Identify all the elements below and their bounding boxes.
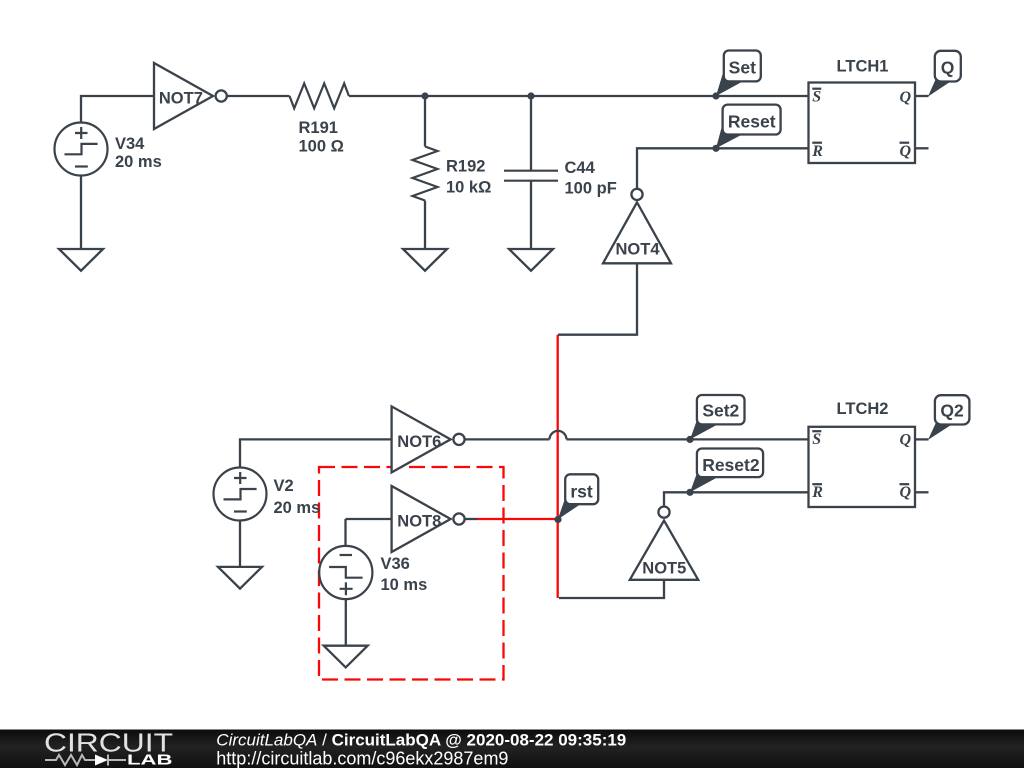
svg-text:CircuitLabQA / CircuitLabQA @: CircuitLabQA / CircuitLabQA @ 2020-08-22… [216,730,626,749]
svg-text:Q: Q [941,58,955,78]
svg-text:Q: Q [900,431,912,448]
svg-text:V34: V34 [115,135,145,153]
svg-text:R191: R191 [299,119,338,137]
svg-text:R192: R192 [446,158,485,176]
svg-text:V2: V2 [274,477,294,495]
svg-text:R: R [811,484,823,501]
svg-text:NOT5: NOT5 [642,560,686,578]
svg-text:10 kΩ: 10 kΩ [446,179,491,197]
svg-text:Q: Q [900,89,912,106]
svg-text:NOT8: NOT8 [397,513,441,531]
svg-text:Set: Set [729,58,756,78]
svg-text:Reset2: Reset2 [702,455,760,475]
svg-text:rst: rst [570,481,593,501]
svg-text:LTCH1: LTCH1 [837,58,889,76]
svg-text:20 ms: 20 ms [115,153,162,171]
svg-text:http://circuitlab.com/c96ekx29: http://circuitlab.com/c96ekx2987em9 [216,748,508,768]
svg-text:C44: C44 [565,159,596,177]
svg-text:LTCH2: LTCH2 [837,400,889,418]
svg-text:NOT4: NOT4 [615,241,660,259]
svg-text:S: S [812,431,821,448]
svg-text:NOT6: NOT6 [397,433,441,451]
svg-text:Set2: Set2 [702,401,739,421]
svg-text:Q: Q [900,143,912,160]
svg-text:LAB: LAB [127,752,173,768]
svg-text:100 pF: 100 pF [565,180,617,198]
svg-text:10 ms: 10 ms [381,576,428,594]
svg-text:20 ms: 20 ms [274,499,321,517]
svg-text:Q2: Q2 [940,401,964,421]
svg-text:R: R [811,143,823,160]
svg-text:S: S [812,88,821,105]
svg-text:V36: V36 [381,555,410,573]
svg-text:Q: Q [900,484,912,501]
svg-text:100 Ω: 100 Ω [299,138,344,156]
svg-text:Reset: Reset [728,112,776,132]
svg-text:NOT7: NOT7 [159,90,203,108]
